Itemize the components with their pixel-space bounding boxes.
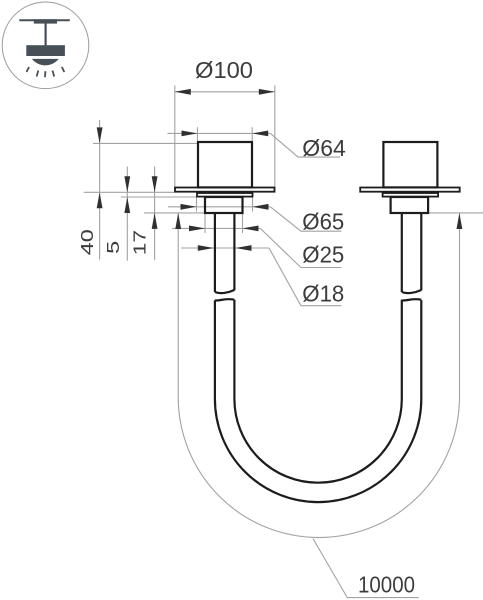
svg-text:Ø25: Ø25: [302, 242, 344, 268]
svg-text:17: 17: [130, 230, 150, 255]
svg-text:Ø64: Ø64: [302, 135, 346, 161]
svg-text:10000: 10000: [358, 572, 415, 598]
svg-text:5: 5: [104, 241, 124, 254]
svg-text:Ø18: Ø18: [302, 281, 344, 307]
svg-text:Ø65: Ø65: [302, 208, 344, 234]
svg-text:40: 40: [78, 229, 98, 255]
svg-text:Ø100: Ø100: [195, 57, 253, 83]
